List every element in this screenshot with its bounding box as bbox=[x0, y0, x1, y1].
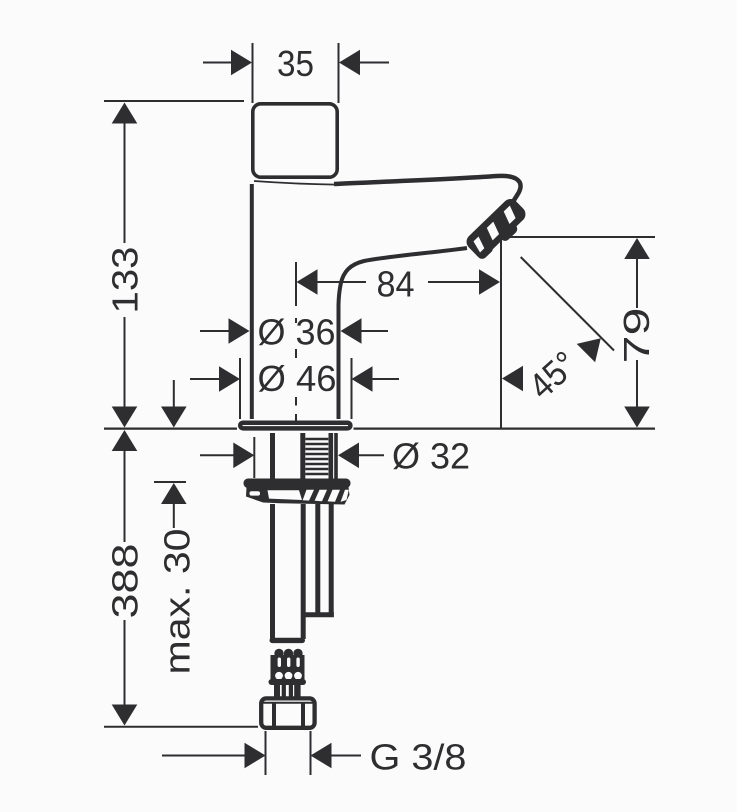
dim Ø36 tail left bbox=[200, 330, 229, 332]
dim Ø46 extension line left bbox=[239, 358, 241, 419]
45deg arrow at vertical bbox=[502, 366, 523, 392]
spout underside bbox=[339, 248, 468, 419]
svg-text:133: 133 bbox=[105, 247, 146, 314]
body left wall bbox=[250, 184, 254, 419]
shank threads bbox=[305, 439, 328, 474]
hose collar bottom bbox=[269, 679, 307, 685]
max30 line bbox=[173, 503, 175, 528]
dim Ø36 arrow right bbox=[341, 318, 362, 344]
spout top edge bbox=[334, 176, 521, 205]
connector pipe wall left bbox=[274, 685, 280, 697]
dim 388 line upper bbox=[124, 450, 126, 542]
dim 133 arrow bottom bbox=[112, 407, 138, 428]
dim Ø46 tail left bbox=[190, 378, 219, 380]
dim 388 line lower bbox=[124, 620, 126, 705]
clamp hatch slot 2 bbox=[315, 490, 327, 501]
dim G38 tail left bbox=[162, 755, 245, 757]
dim Ø46 tail right bbox=[373, 378, 400, 380]
dim 79 line upper bbox=[636, 259, 638, 308]
centerline dot 1 bbox=[295, 318, 297, 323]
dim G38 tail right bbox=[331, 755, 361, 757]
aerator bbox=[463, 196, 531, 263]
connector pipe wall right bbox=[294, 685, 300, 697]
centerline segment upper (84 ext) bbox=[295, 262, 297, 306]
knob bbox=[253, 104, 337, 177]
dim Ø32 tail right bbox=[359, 454, 384, 456]
nut G3/8 bbox=[261, 698, 314, 727]
base plate bbox=[240, 423, 350, 429]
dim Ø32 arrow right bbox=[338, 443, 359, 469]
shank inner line left bbox=[300, 433, 305, 479]
mounting surface line left bbox=[104, 428, 237, 430]
dim 388 arrow top bbox=[112, 430, 138, 451]
clamp slot small bbox=[250, 491, 261, 495]
centerline dash 4 bbox=[295, 414, 297, 421]
mounting surface line right bbox=[354, 428, 656, 430]
svg-text:Ø 46: Ø 46 bbox=[258, 358, 337, 399]
nut flat line left bbox=[272, 704, 276, 727]
dim 35 arrow left bbox=[231, 50, 252, 76]
dim 79 line lower bbox=[636, 360, 638, 407]
svg-text:84: 84 bbox=[377, 263, 415, 304]
reference line 79 top bbox=[501, 236, 655, 238]
dim Ø46 arrow right bbox=[352, 366, 373, 392]
dim 35 arrow right bbox=[339, 50, 360, 76]
clamp wedge bbox=[246, 487, 350, 505]
dim Ø32 arrow left bbox=[233, 443, 254, 469]
dim 388 arrow bottom bbox=[112, 705, 138, 726]
dim Ø46 extension line right bbox=[351, 358, 353, 419]
svg-text:35: 35 bbox=[277, 43, 314, 84]
dim 79 arrow bottom bbox=[624, 407, 650, 428]
45deg diagonal line bbox=[521, 257, 614, 351]
connector pipe inner left bbox=[282, 685, 286, 697]
dim 35 extension line right bbox=[338, 43, 340, 103]
nut flat line right bbox=[301, 704, 305, 727]
dim 79 arrow top bbox=[624, 238, 650, 259]
dim 35 tail right bbox=[358, 62, 389, 64]
dim Ø46 arrow left bbox=[219, 366, 240, 392]
connector pipe inner right bbox=[289, 685, 293, 697]
dim G38 extension line right bbox=[310, 731, 312, 775]
clamp slot big bbox=[268, 490, 303, 500]
supply pipe right wall bbox=[301, 504, 306, 639]
svg-text:Ø 36: Ø 36 bbox=[258, 312, 336, 353]
dim 84 line right bbox=[428, 281, 480, 283]
dim 35 extension line left bbox=[252, 43, 254, 103]
hose corrugation bbox=[271, 649, 305, 680]
max30 upper arrow bbox=[161, 407, 187, 428]
dim Ø32 tail left bbox=[200, 454, 234, 456]
dim 84 line left bbox=[317, 281, 366, 283]
svg-text:388: 388 bbox=[104, 544, 145, 619]
dim 133 arrow top bbox=[112, 103, 138, 124]
dim 84 arrow right bbox=[479, 269, 500, 295]
top reference line 133 bbox=[104, 100, 244, 102]
45deg arrow on diagonal bbox=[577, 338, 601, 362]
tail tube inner wall bbox=[315, 504, 320, 614]
nut top inner line bbox=[263, 702, 313, 704]
dim 35 tail left bbox=[203, 62, 232, 64]
centerline dash 2 bbox=[295, 349, 297, 358]
dim 133 line lower bbox=[124, 317, 126, 408]
dim Ø36 tail right bbox=[361, 330, 388, 332]
knob joint line bbox=[254, 181, 336, 185]
clamp bar bbox=[244, 479, 351, 489]
clamp hatch slot 4 bbox=[341, 490, 349, 502]
dim Ø32 extension line left bbox=[253, 437, 255, 478]
svg-text:79: 79 bbox=[616, 308, 657, 364]
dim G38 extension line left bbox=[265, 731, 267, 775]
dim G38 arrow left bbox=[245, 743, 266, 769]
clamp hatch slot 3 bbox=[328, 490, 340, 502]
clamp hatch slot 1 bbox=[303, 490, 314, 501]
dim G38 arrow right bbox=[311, 743, 332, 769]
tail tube outer wall bbox=[329, 504, 334, 614]
dim 84 arrow left bbox=[297, 269, 318, 295]
svg-text:G 3/8: G 3/8 bbox=[370, 737, 467, 778]
dim 133 line upper bbox=[124, 122, 126, 243]
hose collar top bbox=[270, 638, 306, 643]
max30 upper leader bbox=[173, 380, 175, 407]
svg-text:Ø 32: Ø 32 bbox=[392, 436, 470, 477]
svg-text:max. 30: max. 30 bbox=[157, 529, 198, 675]
shank inner line right bbox=[328, 433, 333, 479]
shank tube right wall bbox=[334, 433, 338, 479]
centerline dash 3 bbox=[295, 397, 297, 406]
supply pipe left wall bbox=[270, 504, 275, 639]
max30 reference tick bbox=[154, 481, 186, 483]
dim Ø36 arrow left bbox=[229, 318, 250, 344]
tail tube bottom cap bbox=[304, 612, 334, 617]
max30 lower arrow bbox=[161, 483, 187, 504]
shank tube left wall bbox=[270, 433, 275, 479]
extension line right vertical bbox=[500, 237, 502, 428]
bottom reference line bbox=[104, 726, 258, 728]
